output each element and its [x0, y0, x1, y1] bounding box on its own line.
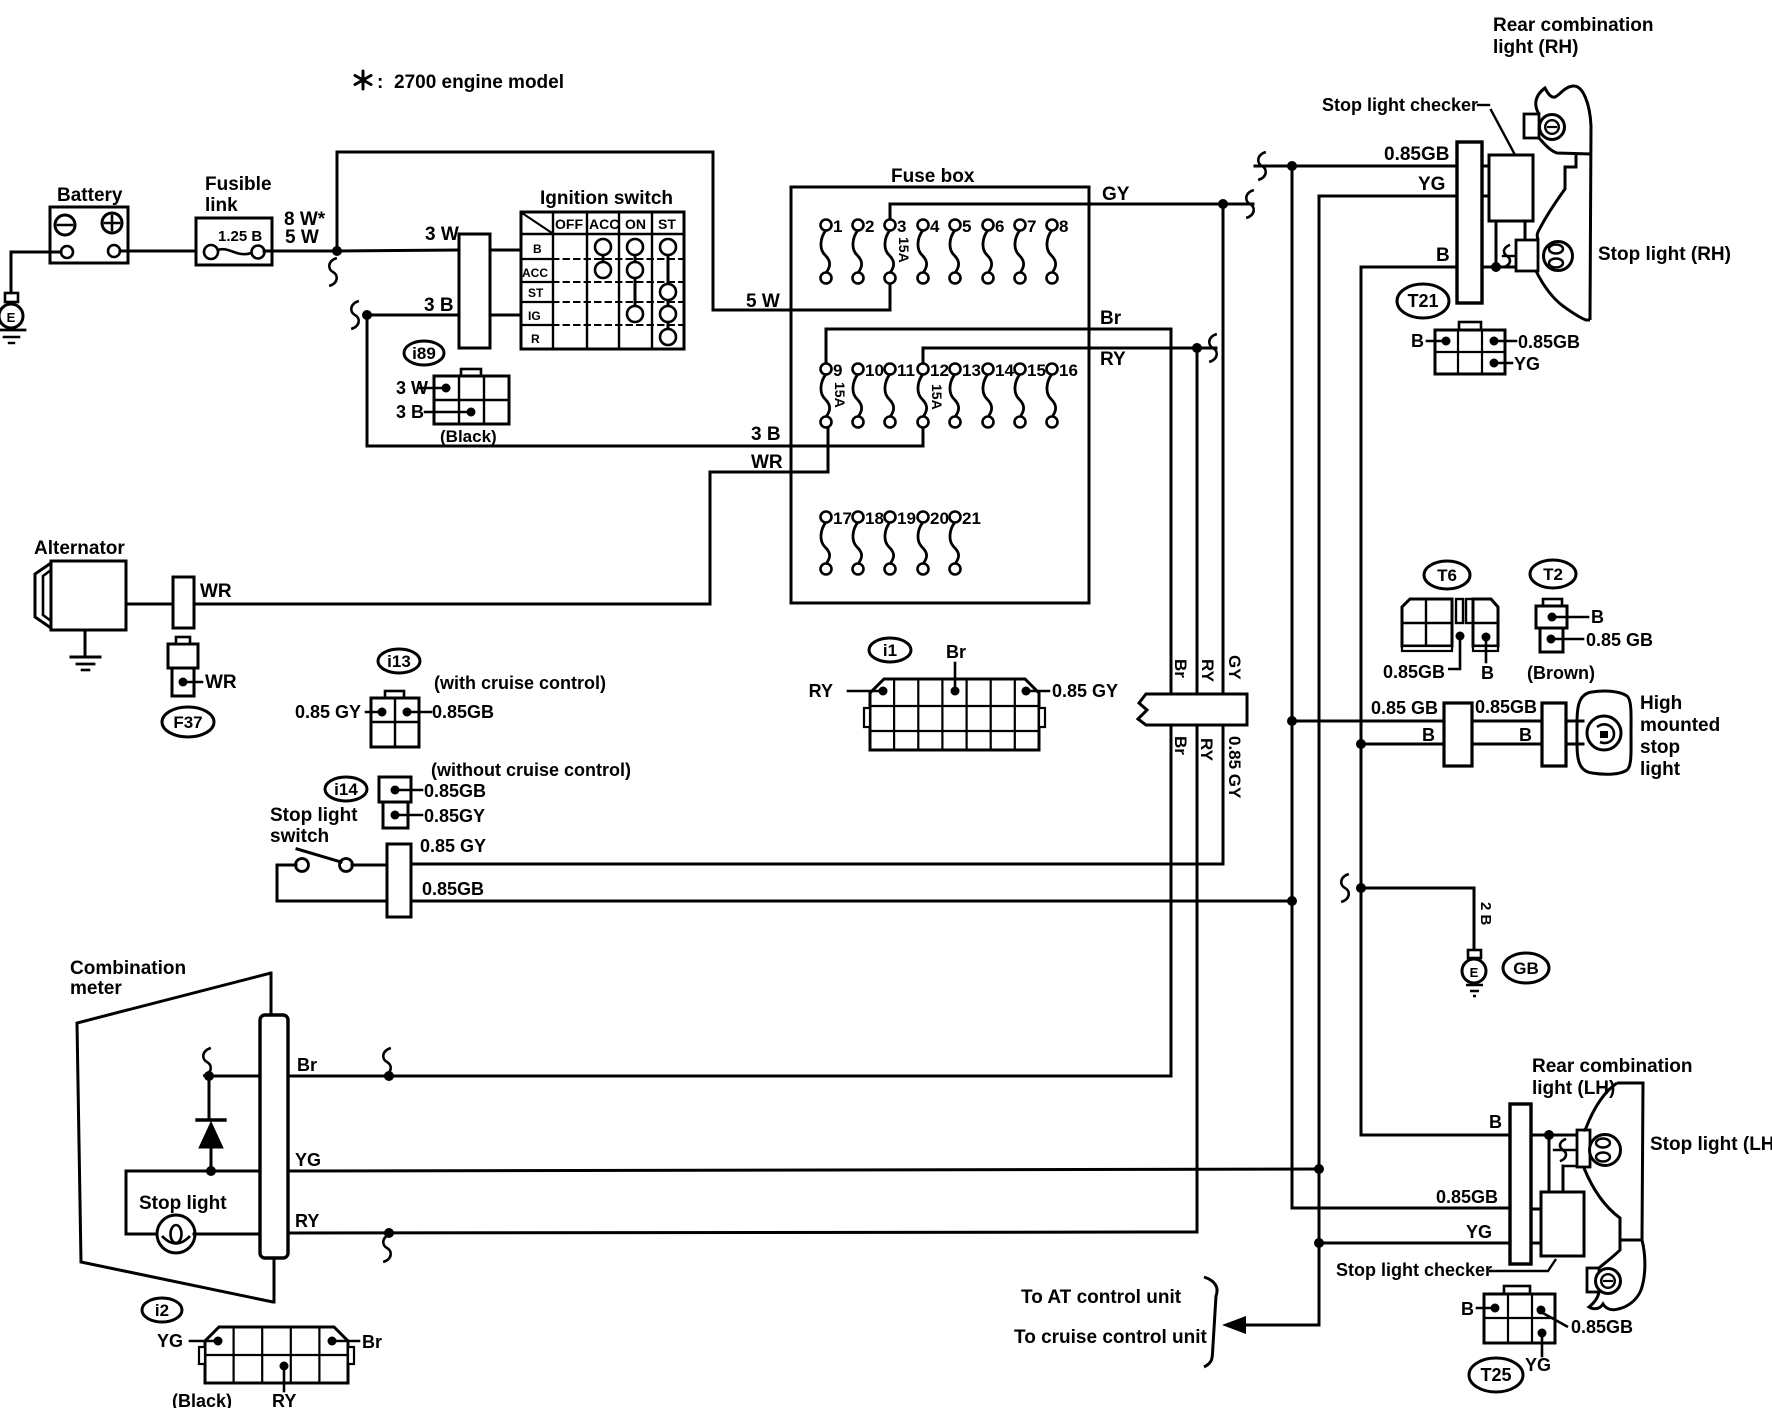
wires to high mount bulb: [1566, 720, 1583, 723]
wire 0.85GB between bars: [1472, 720, 1542, 723]
wire YG bus to LH light: [1319, 1242, 1510, 1245]
connector i2 pin YG: [214, 1337, 223, 1346]
svg-text:meter: meter: [70, 978, 122, 999]
junction RY branch: [384, 1228, 394, 1238]
junction RY / RY riser: [1192, 343, 1202, 353]
connector i1 pin 0.85GY: [1022, 687, 1031, 696]
wire WR to fuse 9: [709, 472, 712, 604]
junction B checker LH: [1544, 1130, 1554, 1140]
wire 0.85GB to T21: [1258, 152, 1266, 180]
stop light switch connector bar: [387, 844, 411, 917]
wire YG combination meter internal: [126, 1170, 260, 1173]
svg-text:18: 18: [865, 509, 884, 528]
svg-text:20: 20: [930, 509, 949, 528]
svg-text:B: B: [1591, 607, 1604, 627]
continuation hook Br internal: [203, 1048, 211, 1076]
svg-text:i2: i2: [155, 1301, 169, 1320]
wire YG combination meter to YG riser: [288, 1169, 1319, 1171]
connector i13 pin 0.85GY: [378, 708, 387, 717]
svg-text:3 B: 3 B: [424, 295, 454, 316]
svg-text:switch: switch: [270, 826, 329, 847]
inline connector bar (harness): [1138, 694, 1247, 725]
svg-text:WR: WR: [200, 581, 232, 602]
wire 2B to ground: [1361, 887, 1474, 890]
continuation hook 3B: [351, 301, 359, 329]
connector F37 oval: [162, 707, 214, 737]
connector F37 pin WR: [179, 678, 188, 687]
svg-text:YG: YG: [1466, 1222, 1492, 1242]
wire alternator WR output: [126, 603, 173, 606]
connector T21 oval: [1397, 284, 1449, 318]
svg-text:B: B: [1489, 1112, 1502, 1132]
high mount connector bar 1: [1444, 703, 1472, 766]
svg-text:4: 4: [930, 217, 940, 236]
connector i89 oval: [404, 341, 444, 365]
svg-text:0.85 GY: 0.85 GY: [295, 702, 361, 722]
svg-text:B: B: [1436, 245, 1450, 266]
svg-text:12: 12: [930, 361, 949, 380]
svg-text:Stop light: Stop light: [270, 805, 358, 826]
wire battery positive to fusible link: [120, 250, 204, 253]
wire 0.85GB switch output: [411, 900, 1292, 903]
svg-text:YG: YG: [1514, 354, 1540, 374]
svg-text:ACC: ACC: [522, 266, 548, 280]
wire 3B ignition to junction: [367, 314, 459, 317]
connector i1 oval: [869, 638, 911, 662]
ground designator GB oval: [1503, 953, 1549, 983]
wire 0.85GB bus to LH light: [1292, 1207, 1510, 1210]
svg-text:0.85 GY: 0.85 GY: [1052, 681, 1118, 701]
combination meter connector bar: [260, 1015, 288, 1258]
svg-text:1: 1: [833, 217, 842, 236]
continuation hook below feed junction: [329, 258, 337, 286]
high mounted stop light bulb: [1587, 716, 1621, 750]
svg-text:5: 5: [962, 217, 971, 236]
svg-text:3 W: 3 W: [396, 378, 428, 398]
svg-text:B: B: [1461, 1299, 1474, 1319]
connector i2 oval: [142, 1298, 182, 1322]
connector i14 pin 0.85GB: [391, 786, 400, 795]
battery B1: [50, 207, 128, 263]
svg-text:OFF: OFF: [555, 216, 583, 232]
wire YG to T21: [1319, 195, 1457, 198]
tail light RH bulb: [1524, 114, 1539, 138]
svg-text:E: E: [7, 310, 16, 325]
svg-text:19: 19: [897, 509, 916, 528]
svg-text:21: 21: [962, 509, 981, 528]
connector i1 body: [870, 679, 1039, 750]
wire ignition IG row: [490, 314, 521, 317]
continuation hook stop light RH feed: [1503, 255, 1516, 257]
connector i2 pin RY: [280, 1362, 289, 1371]
connector T21 pin B: [1442, 337, 1451, 346]
connector i2 body: [205, 1327, 348, 1383]
svg-text:(Black): (Black): [172, 1391, 232, 1408]
svg-text:ACC: ACC: [589, 216, 619, 232]
svg-text:0.85GB: 0.85GB: [1475, 697, 1537, 717]
svg-text:WR: WR: [205, 672, 237, 693]
junction Br internal: [204, 1071, 214, 1081]
svg-text:0.85GY: 0.85GY: [424, 806, 485, 826]
connector T25 oval: [1469, 1358, 1523, 1392]
ignition switch connector bar: [459, 234, 490, 348]
connector T25 pin YG: [1538, 1329, 1547, 1338]
connector T21 pin 0.85GB: [1490, 337, 1499, 346]
svg-text:i14: i14: [334, 780, 358, 799]
connector i14 body: [379, 777, 411, 802]
svg-text:YG: YG: [1418, 174, 1445, 195]
connector T25 pin B: [1491, 1304, 1500, 1313]
svg-text:Ignition switch: Ignition switch: [540, 188, 673, 209]
svg-text:Stop light: Stop light: [139, 1193, 227, 1214]
junction B high-mount: [1356, 739, 1366, 749]
wire YG to AT/cruise arrow: [1240, 1324, 1319, 1327]
svg-text:Br: Br: [1171, 659, 1190, 678]
svg-text:RY: RY: [1197, 738, 1216, 762]
svg-text:2: 2: [865, 217, 874, 236]
tail light LH bulb: [1587, 1268, 1599, 1292]
svg-text:B: B: [1411, 331, 1424, 351]
svg-text:i13: i13: [387, 652, 411, 671]
wire ignition B row: [490, 249, 521, 252]
connector i89 body: [461, 369, 481, 376]
fuses 1-8: [821, 230, 830, 273]
svg-text:0.85GB: 0.85GB: [422, 879, 484, 899]
connector T6 oval: [1424, 561, 1470, 589]
junction battery feed: [332, 246, 342, 256]
svg-text:E: E: [1470, 965, 1479, 980]
wire stop light switch left leg: [277, 864, 296, 867]
svg-text:0.85 GY: 0.85 GY: [1225, 736, 1244, 799]
junction 0.85GB high-mount: [1287, 716, 1297, 726]
junction YG meter: [1314, 1164, 1324, 1174]
wire YG bus: [1318, 196, 1321, 1325]
continuation hook Br branch: [383, 1048, 391, 1076]
continuation hook RY branch: [383, 1234, 391, 1262]
junction 0.85GB top: [1287, 161, 1297, 171]
svg-text:WR: WR: [751, 452, 783, 473]
svg-text:light (RH): light (RH): [1493, 37, 1578, 58]
svg-text:ST: ST: [658, 216, 676, 232]
svg-text:GB: GB: [1513, 959, 1539, 978]
ignition contacts ST column: [667, 247, 670, 337]
svg-text:0.85GB: 0.85GB: [1383, 662, 1445, 682]
svg-text:0.85GB: 0.85GB: [1384, 144, 1449, 165]
svg-text:Br: Br: [946, 642, 966, 662]
svg-text:6: 6: [995, 217, 1004, 236]
svg-text:Battery: Battery: [57, 185, 123, 206]
wire Br riser: [1170, 329, 1173, 1076]
wire RY from fuse 12: [922, 348, 925, 363]
continuation hook stop light LH: [1554, 1149, 1577, 1151]
alternator: [51, 561, 126, 630]
continuation hook RY: [1209, 334, 1217, 362]
svg-text:Br: Br: [1100, 308, 1122, 329]
svg-text:0.85GB: 0.85GB: [1436, 1187, 1498, 1207]
wire B between bars: [1472, 743, 1542, 746]
svg-text:0.85 GY: 0.85 GY: [420, 836, 486, 856]
svg-text:Stop light (RH): Stop light (RH): [1598, 244, 1731, 265]
connector T6 pin 0.85GB: [1456, 632, 1465, 641]
connector i1 pin Br: [951, 687, 960, 696]
stop light checker LH box: [1541, 1192, 1584, 1256]
svg-text:F37: F37: [173, 713, 202, 732]
connector i14 oval: [325, 777, 367, 801]
stop light LH bulb: [1577, 1130, 1590, 1167]
fuse box 5W internal feed to fuse 3: [789, 309, 890, 312]
junction 3B: [362, 310, 372, 320]
svg-text:17: 17: [833, 509, 852, 528]
svg-text:Fuse box: Fuse box: [891, 166, 975, 187]
svg-text:RY: RY: [1198, 659, 1217, 683]
svg-text:5 W: 5 W: [285, 227, 319, 248]
svg-text:YG: YG: [157, 1331, 183, 1351]
svg-text:7: 7: [1027, 217, 1036, 236]
svg-text:3 W: 3 W: [425, 224, 459, 245]
svg-text:IG: IG: [528, 309, 541, 323]
svg-text:GY: GY: [1102, 184, 1130, 205]
svg-text:RY: RY: [1100, 349, 1126, 370]
svg-text:T25: T25: [1480, 1365, 1511, 1385]
connector T2 oval: [1530, 560, 1576, 588]
svg-text:High: High: [1640, 693, 1682, 714]
svg-text:mounted: mounted: [1640, 715, 1720, 736]
svg-text:stop: stop: [1640, 737, 1680, 758]
wire 3B to fuse 12: [366, 315, 369, 446]
svg-text:Br: Br: [362, 1332, 382, 1352]
fuses 17-21: [821, 522, 830, 564]
wire GY from fuse 3: [889, 204, 892, 219]
svg-text:RY: RY: [295, 1211, 319, 1231]
connector i13 pin 0.85GB: [403, 708, 412, 717]
svg-text:3 B: 3 B: [751, 424, 781, 445]
stop light RH bulb: [1516, 240, 1538, 271]
connector T2 body: [1543, 599, 1562, 606]
connector i1 pin RY: [879, 687, 888, 696]
high mount connector bar 2: [1542, 703, 1566, 766]
junction GY / GY riser: [1218, 199, 1228, 209]
svg-text:To AT control unit: To AT control unit: [1021, 1287, 1182, 1308]
svg-text:YG: YG: [1525, 1355, 1551, 1375]
svg-text:Stop light (LH): Stop light (LH): [1650, 1134, 1772, 1155]
wire fusible link to junction: [264, 250, 337, 253]
svg-text:5 W: 5 W: [746, 291, 780, 312]
svg-text:Combination: Combination: [70, 958, 186, 979]
svg-text:YG: YG: [295, 1150, 321, 1170]
svg-text:3 B: 3 B: [396, 402, 424, 422]
svg-text:i1: i1: [883, 641, 897, 660]
svg-text::: :: [377, 72, 383, 93]
svg-text:9: 9: [833, 361, 842, 380]
stop light checker RH box: [1489, 155, 1533, 221]
svg-text:(with cruise control): (with cruise control): [434, 673, 606, 693]
wire RY combination meter to RY riser: [288, 1232, 1197, 1233]
junction YG LH light: [1314, 1238, 1324, 1248]
connector T2 pin 0.85GB: [1547, 635, 1556, 644]
wire B to stop light LH: [1531, 1134, 1577, 1137]
svg-text:(without cruise control): (without cruise control): [431, 760, 631, 780]
connector i13 oval: [378, 649, 420, 673]
junction B 2B ground branch: [1356, 883, 1366, 893]
connector T2 pin B: [1548, 613, 1557, 622]
svg-text:Stop light checker: Stop light checker: [1336, 1260, 1492, 1280]
svg-text:0.85 GB: 0.85 GB: [1371, 698, 1438, 718]
fuse box outline: [791, 187, 1089, 603]
connector T6 body: [1402, 599, 1452, 646]
svg-text:15A: 15A: [929, 384, 945, 410]
svg-text:14: 14: [995, 361, 1014, 380]
svg-text:link: link: [205, 195, 238, 216]
connector LH bar: [1510, 1104, 1531, 1264]
svg-text:1.25 B: 1.25 B: [218, 228, 262, 245]
svg-text:ST: ST: [528, 286, 544, 300]
svg-text:3: 3: [897, 217, 906, 236]
svg-text:0.85GB: 0.85GB: [1518, 332, 1580, 352]
wire B to T21: [1361, 266, 1457, 269]
wire RY riser: [1196, 348, 1199, 1232]
wire checker RH to bulb: [1524, 221, 1527, 240]
svg-text:0.85GB: 0.85GB: [432, 702, 494, 722]
ground E (GB): [1468, 950, 1481, 958]
svg-text:8: 8: [1059, 217, 1068, 236]
svg-text:B: B: [1519, 725, 1532, 745]
wire feed riser to fuse box 5W: [336, 152, 339, 251]
continuation hook GY: [1246, 190, 1254, 218]
rear combination light LH housing: [1617, 1083, 1643, 1240]
wire Br from fuse 9: [825, 329, 828, 363]
note: 2700 engine model: [355, 71, 371, 89]
wire B to stop light RH: [1482, 266, 1516, 269]
svg-text:0.85GB: 0.85GB: [1571, 1317, 1633, 1337]
wire switch to connector 0.85GY: [352, 864, 387, 867]
svg-text:B: B: [1481, 663, 1494, 683]
connector i13 body: [385, 691, 404, 698]
svg-text:Br: Br: [297, 1055, 317, 1075]
connector T21 bar: [1457, 142, 1482, 303]
rear combination light RH housing: [1536, 86, 1591, 320]
svg-text:T6: T6: [1437, 566, 1457, 585]
wire 0.85GY switch output: [411, 863, 1223, 866]
junction checker RH B: [1491, 262, 1501, 272]
svg-text:15A: 15A: [832, 382, 848, 408]
wire 3W junction to ignition switch: [337, 250, 459, 251]
svg-text:T2: T2: [1543, 565, 1563, 584]
wire 0.85GB bus: [1291, 166, 1294, 1208]
junction Br branch: [384, 1071, 394, 1081]
ignition contacts ACC column: [602, 247, 605, 270]
connector i89 pin 3W: [442, 384, 451, 393]
svg-text:RY: RY: [809, 681, 833, 701]
svg-text:RY: RY: [272, 1391, 296, 1408]
connector i89 pin 3B: [467, 408, 476, 417]
svg-text:R: R: [531, 332, 540, 346]
alternator connector bar: [173, 577, 194, 628]
svg-text:10: 10: [865, 361, 884, 380]
wire GY/0.85GY riser: [1222, 204, 1225, 864]
svg-text:2 B: 2 B: [1477, 902, 1494, 926]
bracket AT/cruise: [1204, 1277, 1217, 1367]
svg-text:(Brown): (Brown): [1527, 663, 1595, 683]
junction diode to YG: [206, 1166, 216, 1176]
connector T21 grid: [1459, 322, 1481, 330]
diode D1: [208, 1076, 211, 1120]
wire Br combination meter internal: [209, 1075, 260, 1078]
connector F37 body: [168, 644, 198, 668]
wire Br combination meter to riser: [288, 1075, 1171, 1078]
svg-text:light: light: [1640, 759, 1681, 780]
connector i2 pin Br: [328, 1337, 337, 1346]
svg-text:B: B: [1422, 725, 1435, 745]
svg-text:16: 16: [1059, 361, 1078, 380]
wire B to high mount: [1361, 743, 1444, 746]
svg-text:2700 engine model: 2700 engine model: [394, 72, 564, 93]
connector T21 pin YG: [1490, 359, 1499, 368]
svg-text:13: 13: [962, 361, 981, 380]
wire checker RH to B: [1495, 221, 1498, 267]
fuses 9-16: [821, 374, 830, 417]
svg-text:Stop light checker: Stop light checker: [1322, 95, 1478, 115]
svg-text:ON: ON: [625, 216, 646, 232]
svg-text:15A: 15A: [896, 237, 912, 263]
svg-text:T21: T21: [1407, 291, 1438, 311]
wire 0.85GB to high mount: [1292, 720, 1444, 723]
svg-text:11: 11: [897, 361, 915, 380]
wire WR alternator to fuse box: [194, 603, 710, 606]
svg-text:Alternator: Alternator: [34, 538, 125, 559]
continuation hook 2B: [1341, 874, 1349, 902]
connector T25 grid: [1504, 1286, 1530, 1294]
svg-text:0.85 GB: 0.85 GB: [1586, 630, 1653, 650]
svg-text:GY: GY: [1225, 655, 1244, 680]
wire B bus: [1360, 267, 1363, 1133]
svg-text:i89: i89: [412, 344, 436, 363]
wire battery negative to ground: [11, 251, 61, 254]
wire B bus to LH light: [1360, 1133, 1363, 1135]
svg-text:Rear combination: Rear combination: [1532, 1056, 1692, 1077]
svg-text:Fusible: Fusible: [205, 174, 272, 195]
svg-text:(Black): (Black): [440, 427, 497, 446]
ignition contacts ON column: [634, 247, 637, 314]
fusible link FL 1.25B: [196, 218, 272, 265]
ground (alternator): [84, 630, 87, 656]
svg-text:Rear combination: Rear combination: [1493, 15, 1653, 36]
wire checker LH leads: [1548, 1135, 1551, 1192]
wire bulb to bar: [194, 1233, 260, 1236]
svg-text:15: 15: [1027, 361, 1046, 380]
connector T6 pin B: [1482, 633, 1491, 642]
high mounted stop light housing: [1577, 691, 1631, 774]
svg-text:B: B: [533, 242, 542, 256]
svg-text:Br: Br: [1171, 736, 1190, 755]
svg-text:To cruise control unit: To cruise control unit: [1014, 1327, 1207, 1348]
junction 0.85GB switch feed: [1287, 896, 1297, 906]
ground E (battery): [5, 293, 18, 302]
connector T25 pin 0.85GB: [1537, 1306, 1546, 1315]
svg-text:0.85GB: 0.85GB: [424, 781, 486, 801]
connector i14 pin 0.85GY: [391, 811, 400, 820]
